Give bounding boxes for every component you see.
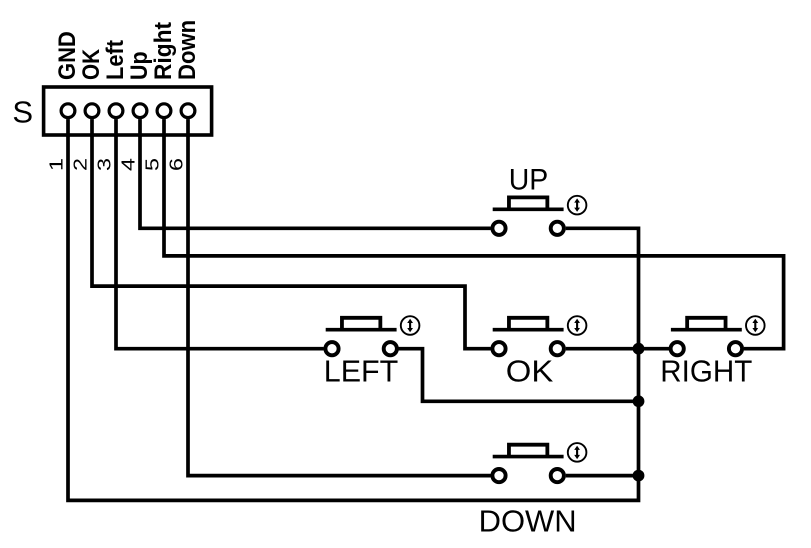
svg-text:UP: UP bbox=[509, 164, 549, 197]
wire: pin 5 stub inside connector bbox=[162, 119, 166, 137]
svg-text:3: 3 bbox=[94, 158, 115, 171]
svg-text:5: 5 bbox=[142, 158, 163, 171]
pushbutton LEFT actuator cap bbox=[342, 318, 380, 330]
wire: pin 4 stub inside connector bbox=[138, 119, 142, 137]
pushbutton RIGHT right terminal bbox=[729, 342, 742, 355]
pushbutton OK actuator cap bbox=[509, 318, 547, 330]
svg-text:6: 6 bbox=[166, 158, 187, 171]
pushbutton LEFT press indicator bbox=[401, 316, 420, 335]
pushbutton RIGHT actuator bar bbox=[671, 328, 742, 332]
pushbutton UP actuator bar bbox=[493, 208, 564, 212]
pushbutton UP actuator cap bbox=[509, 197, 547, 209]
pushbutton UP left terminal bbox=[492, 222, 505, 235]
connector S body bbox=[44, 87, 212, 135]
pushbutton DOWN right terminal bbox=[551, 469, 564, 482]
connector pin 6 socket bbox=[181, 104, 195, 118]
svg-text:OK: OK bbox=[506, 353, 554, 388]
svg-text:RIGHT: RIGHT bbox=[660, 353, 752, 388]
wire: pin2 OK to OK button left terminal bbox=[92, 119, 491, 349]
svg-text:S: S bbox=[12, 95, 33, 130]
svg-text:2: 2 bbox=[70, 158, 91, 171]
junction node at common rail y=401.3 bbox=[633, 395, 645, 407]
svg-text:Left: Left bbox=[102, 40, 129, 80]
pushbutton LEFT left terminal bbox=[325, 342, 338, 355]
pushbutton RIGHT actuator cap bbox=[687, 318, 725, 330]
svg-text:OK: OK bbox=[78, 48, 105, 80]
pushbutton DOWN press indicator bbox=[568, 443, 587, 462]
wire: GND net pin1 to common rail bbox=[68, 119, 639, 500]
svg-text:Right: Right bbox=[150, 22, 177, 80]
svg-text:1: 1 bbox=[46, 158, 67, 171]
wire: LEFT right terminal to common rail bbox=[399, 349, 639, 402]
pushbutton UP press indicator bbox=[568, 196, 587, 215]
pushbutton DOWN left terminal bbox=[492, 469, 505, 482]
junction node at common rail y=348.7 bbox=[633, 343, 645, 355]
wire: DOWN right terminal to common rail bbox=[566, 474, 639, 478]
pushbutton DOWN actuator cap bbox=[509, 445, 547, 457]
connector pin 4 socket bbox=[133, 104, 147, 118]
svg-text:Up: Up bbox=[126, 51, 153, 80]
wire: pin5 Right to RIGHT button right terminal bbox=[164, 119, 784, 349]
svg-text:4: 4 bbox=[118, 158, 139, 171]
pushbutton LEFT right terminal bbox=[384, 342, 397, 355]
connector pin 5 socket bbox=[157, 104, 171, 118]
svg-text:Down: Down bbox=[174, 20, 201, 80]
pushbutton RIGHT left terminal bbox=[671, 342, 684, 355]
svg-text:LEFT: LEFT bbox=[324, 353, 399, 388]
svg-text:DOWN: DOWN bbox=[479, 503, 577, 538]
pushbutton RIGHT press indicator bbox=[746, 316, 765, 335]
junction node at common rail y=475.6 bbox=[633, 470, 645, 482]
connector pin 2 socket bbox=[85, 104, 99, 118]
wire: pin6 Down to DOWN button left terminal bbox=[188, 119, 491, 476]
wire: pin3 Left to LEFT button left terminal bbox=[116, 119, 324, 349]
wire: pin 3 stub inside connector bbox=[114, 119, 118, 137]
pushbutton OK left terminal bbox=[492, 342, 505, 355]
pushbutton OK press indicator bbox=[568, 316, 587, 335]
pushbutton UP right terminal bbox=[551, 222, 564, 235]
pushbutton OK actuator bar bbox=[493, 328, 564, 332]
pushbutton DOWN actuator bar bbox=[493, 455, 564, 459]
connector pin 3 socket bbox=[109, 104, 123, 118]
svg-text:GND: GND bbox=[54, 31, 81, 80]
pushbutton OK right terminal bbox=[551, 342, 564, 355]
wire: OK right terminal to RIGHT left terminal bbox=[566, 347, 669, 351]
wire: pin 2 stub inside connector bbox=[90, 119, 94, 137]
wire: pin 6 stub inside connector bbox=[186, 119, 190, 137]
pushbutton LEFT actuator bar bbox=[326, 328, 397, 332]
wire: pin4 Up to UP button left terminal bbox=[140, 119, 491, 228]
wire: pin 1 stub inside connector bbox=[66, 119, 70, 137]
connector pin 1 socket bbox=[61, 104, 75, 118]
